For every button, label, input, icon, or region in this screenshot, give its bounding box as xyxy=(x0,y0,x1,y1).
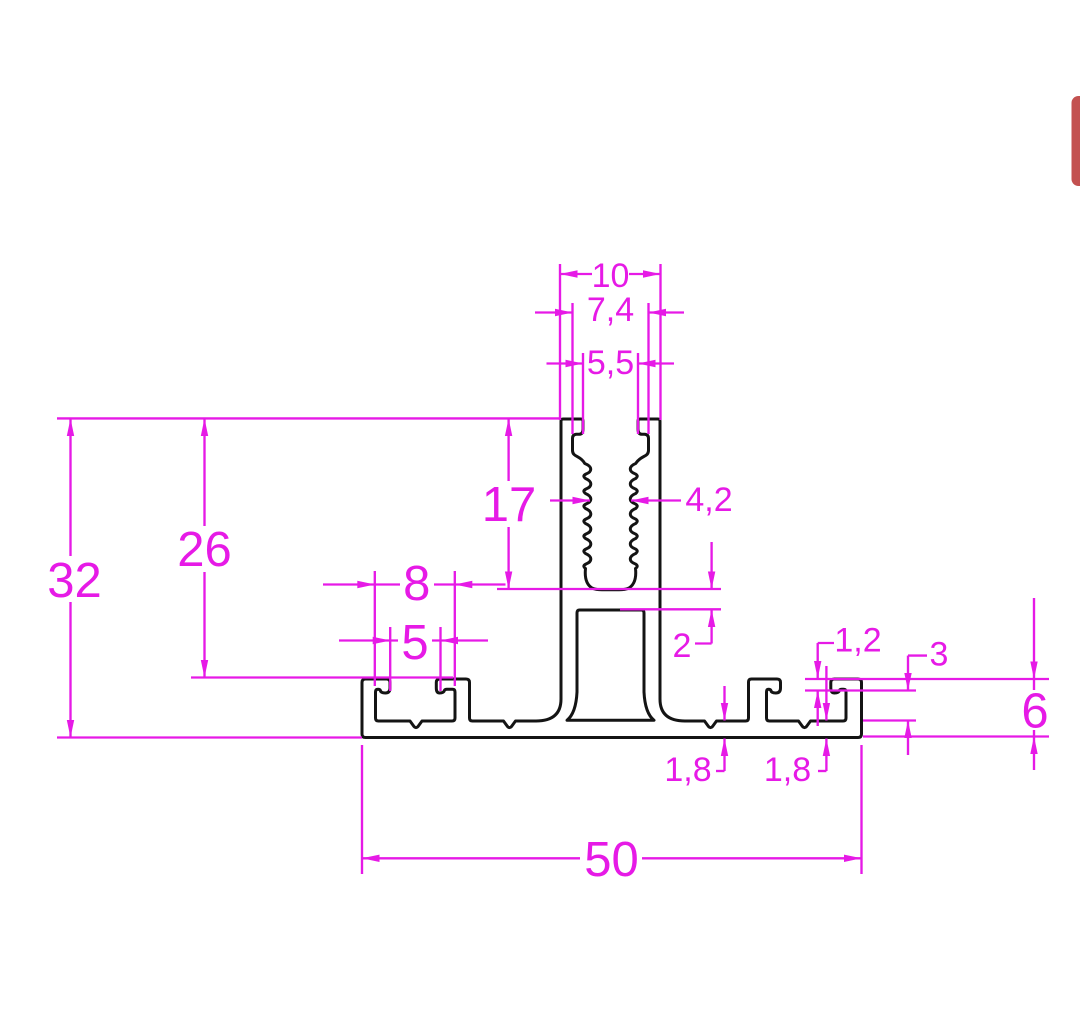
dimension 50 (overall width) xyxy=(362,745,862,887)
svg-text:1,8: 1,8 xyxy=(764,751,811,789)
dimension 17 (screw channel depth) xyxy=(482,419,721,590)
svg-text:2: 2 xyxy=(673,627,692,665)
dimension 5 (slot opening width) xyxy=(339,616,488,691)
dimension 4,2 (thread minor diameter) xyxy=(550,481,733,519)
svg-text:26: 26 xyxy=(177,523,232,577)
svg-text:5: 5 xyxy=(401,616,428,670)
dimension 7,4 (thread channel major width) xyxy=(535,291,684,434)
dimension 26 (height to foot lips) xyxy=(177,419,453,678)
dimension 1,8 right (base thickness) xyxy=(764,666,830,789)
svg-text:5,5: 5,5 xyxy=(587,344,634,382)
svg-text:4,2: 4,2 xyxy=(685,481,732,519)
dimension 1,8 left (base thickness) xyxy=(664,686,728,789)
dimension 6 (foot wall height) xyxy=(1021,598,1048,770)
dimension 32 (overall height) xyxy=(47,419,362,738)
profile outline: aluminium extrusion cross-section xyxy=(362,419,862,738)
dimension 1,2 (lip thickness) xyxy=(814,622,882,727)
svg-text:3: 3 xyxy=(930,636,949,674)
dimension 2 (floor under screw channel) xyxy=(620,542,721,665)
extension lines right side (lip top / lip bottom / floor / base bottom) xyxy=(805,679,1049,737)
svg-text:1,8: 1,8 xyxy=(664,751,711,789)
dimension 8 (slot interior width) xyxy=(323,557,506,686)
inner hollow cavity below screw channel xyxy=(567,610,654,720)
svg-text:8: 8 xyxy=(403,557,430,611)
svg-text:6: 6 xyxy=(1021,685,1048,739)
svg-text:1,2: 1,2 xyxy=(834,622,881,660)
dimension 5,5 (screw channel opening) xyxy=(547,344,675,434)
svg-text:17: 17 xyxy=(482,478,537,532)
dimension 10 (outer width of screw boss) xyxy=(560,257,661,420)
dimension 3 (clearance under lip) xyxy=(904,636,948,756)
svg-text:10: 10 xyxy=(592,257,630,295)
svg-text:32: 32 xyxy=(47,554,102,608)
red bookmark tab at right edge xyxy=(1072,96,1080,186)
extension line top (y=418) shared by 32/26/17 xyxy=(57,417,561,419)
svg-text:7,4: 7,4 xyxy=(587,291,634,329)
svg-text:50: 50 xyxy=(584,833,639,887)
